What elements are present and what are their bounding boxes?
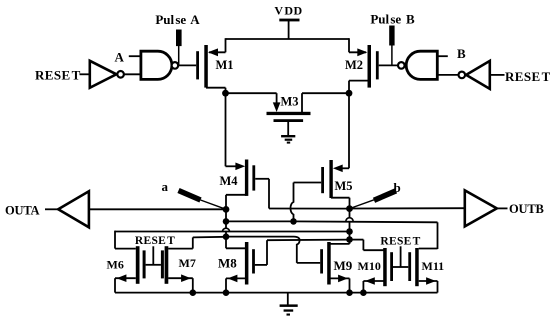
shared gate M6 M7 bbox=[146, 246, 161, 264]
svg-text:M3: M3 bbox=[281, 95, 299, 109]
wire NAND G2 out to M2 gate bbox=[379, 64, 398, 66]
node M10 source dot bbox=[360, 289, 367, 296]
wire M1 source to VDD rail bbox=[209, 38, 226, 52]
node b bbox=[346, 205, 353, 212]
NAND gate G2 bbox=[398, 51, 437, 79]
svg-text:M10: M10 bbox=[358, 259, 381, 273]
probe bar Pulse A bbox=[176, 30, 182, 66]
wire NAND G1 out to M1 gate bbox=[179, 64, 197, 66]
wire M5 source to node b bbox=[331, 198, 350, 209]
wire buffer U3 to node a bbox=[89, 208, 226, 210]
wire ground rail bbox=[115, 292, 438, 294]
wire M3 right branch bbox=[302, 93, 349, 112]
svg-text:M8: M8 bbox=[218, 256, 237, 271]
wire M5 gate to node a with hop bbox=[291, 183, 322, 222]
label A bbox=[115, 50, 125, 65]
transistor M10 bbox=[358, 248, 394, 286]
wire node a to M8 drain bbox=[226, 237, 246, 249]
wire node a to M5 gate line bbox=[226, 220, 294, 222]
label b bbox=[394, 180, 401, 195]
transistor M4 bbox=[220, 160, 256, 196]
NAND gate G1 bbox=[141, 51, 178, 79]
label a bbox=[162, 179, 169, 194]
transistor M8 bbox=[218, 242, 255, 285]
label RESET bottom-left bbox=[135, 235, 175, 247]
buffer U3 bbox=[58, 191, 89, 227]
wire RESET to inverter U1 bbox=[80, 73, 90, 75]
svg-text:M2: M2 bbox=[345, 58, 363, 72]
wire M7 source with arrow bbox=[168, 274, 193, 292]
wire VDD rail bbox=[226, 38, 350, 40]
probe bar b bbox=[350, 191, 397, 209]
wire left drain column to M4 bbox=[225, 93, 227, 166]
label B bbox=[457, 46, 466, 61]
svg-text:M1: M1 bbox=[216, 58, 234, 72]
node M1 drain dot bbox=[222, 90, 229, 97]
wire node a to M9 gate with corner and hop bbox=[226, 237, 320, 263]
wire M8 gate to node b bbox=[255, 240, 350, 265]
wire node b to buffer U4 bbox=[350, 207, 465, 209]
node M9 source dot bbox=[346, 289, 353, 296]
ground of M3 bbox=[281, 135, 295, 144]
label Pulse B bbox=[370, 12, 415, 27]
svg-text:RESET: RESET bbox=[135, 235, 175, 247]
label RESET right bbox=[505, 69, 550, 84]
node b tap dot lower bbox=[346, 236, 353, 243]
power VDD bar symbol bbox=[279, 19, 299, 39]
transistor M7 bbox=[161, 246, 196, 284]
node M7 source dot bbox=[190, 289, 197, 296]
wire M10 source with arrow bbox=[363, 277, 384, 292]
wire M11 drain up to node a line bbox=[419, 248, 438, 250]
label OUTA bbox=[5, 204, 40, 218]
wire input A to NAND G1 bbox=[129, 55, 141, 57]
svg-text:RESET: RESET bbox=[380, 236, 420, 248]
wire M6 drain up to rail bbox=[115, 231, 136, 249]
label RESET left bbox=[35, 68, 81, 83]
wire buffer U4 to OUTB bbox=[497, 207, 508, 209]
wire inverter U1 out to NAND G1 bbox=[124, 73, 140, 75]
ground symbol bbox=[280, 293, 298, 316]
svg-text:M5: M5 bbox=[335, 179, 353, 193]
node a tap dot bbox=[223, 218, 230, 225]
inverter U2 bbox=[459, 61, 490, 89]
transistor M3 mos-cap bbox=[267, 95, 311, 136]
wire M7 drain to node a bbox=[168, 237, 226, 249]
wire M9 source with arrow bbox=[329, 275, 350, 293]
svg-text:M4: M4 bbox=[220, 174, 239, 188]
wire M8 source with arrow bbox=[226, 275, 247, 293]
transistor M5 bbox=[321, 160, 352, 198]
transistor M2 bbox=[345, 45, 379, 88]
node M2 drain dot bbox=[346, 90, 353, 97]
power VDD label bbox=[274, 4, 302, 18]
transistor M1 bbox=[196, 45, 233, 88]
transistor M6 bbox=[107, 246, 146, 284]
wire M1 drain bbox=[206, 88, 226, 94]
wire M4 gate to node b bbox=[255, 179, 349, 209]
node M5 gate junction bbox=[290, 218, 297, 225]
wire input B to NAND G2 bbox=[437, 55, 447, 57]
probe bar Pulse B bbox=[389, 26, 394, 66]
svg-text:M6: M6 bbox=[107, 258, 124, 272]
svg-text:RESET: RESET bbox=[505, 69, 550, 84]
wire node b to M9 drain bbox=[329, 240, 350, 244]
svg-text:M11: M11 bbox=[422, 259, 445, 273]
wire OUTA to buffer U3 bbox=[45, 208, 58, 210]
wire node b to M10 drain bbox=[350, 240, 385, 251]
shared gate M10 M11 bbox=[393, 246, 408, 267]
wire node a column hop over M6 rail bbox=[222, 221, 229, 236]
wire M2 source to VDD rail bbox=[349, 38, 366, 52]
svg-text:Pulse A: Pulse A bbox=[155, 12, 200, 27]
svg-text:RESET: RESET bbox=[35, 68, 81, 83]
label Pulse A bbox=[155, 12, 200, 27]
wire node a column upper bbox=[225, 209, 227, 221]
probe bar a bbox=[179, 191, 227, 210]
buffer U4 bbox=[465, 190, 497, 226]
wire M6 source with arrow bbox=[115, 274, 136, 292]
node b tap dot upper bbox=[346, 228, 353, 235]
wire RESET to inverter U2 bbox=[490, 74, 505, 76]
node a lower tap dot bbox=[223, 233, 230, 240]
node a bbox=[223, 206, 230, 213]
wire M4 drain entry bbox=[226, 163, 246, 171]
wire node b column mid bbox=[349, 232, 351, 240]
svg-text:VDD: VDD bbox=[274, 4, 302, 18]
wire M5 drain entry bbox=[333, 165, 349, 173]
svg-text:B: B bbox=[457, 46, 466, 61]
svg-text:A: A bbox=[115, 50, 125, 65]
svg-text:a: a bbox=[162, 179, 169, 194]
wire node b column hop over node a line bbox=[346, 209, 353, 232]
wire M11 source with arrow bbox=[419, 277, 438, 292]
wire M6 drain rail to node b bbox=[115, 231, 350, 233]
inverter U1 bbox=[90, 61, 124, 88]
label OUTB bbox=[509, 202, 544, 216]
transistor M11 bbox=[408, 248, 444, 286]
transistor M9 bbox=[320, 242, 353, 285]
svg-text:OUTA: OUTA bbox=[5, 204, 40, 218]
svg-text:M9: M9 bbox=[334, 258, 353, 273]
svg-text:Pulse B: Pulse B bbox=[370, 12, 415, 27]
wire inverter U2 out to NAND G2 bbox=[437, 74, 458, 76]
label RESET bottom-right bbox=[380, 236, 420, 248]
wire M4 source to node a bbox=[226, 195, 247, 210]
wire right drain column to M5 bbox=[348, 93, 350, 168]
svg-text:M7: M7 bbox=[179, 256, 196, 270]
node M8 source dot bbox=[223, 289, 230, 296]
svg-text:OUTB: OUTB bbox=[509, 202, 544, 216]
wire M3 left branch with arrow bbox=[226, 93, 281, 112]
wire node a line to M11 drain bbox=[294, 221, 438, 249]
wire M2 drain bbox=[349, 81, 369, 94]
